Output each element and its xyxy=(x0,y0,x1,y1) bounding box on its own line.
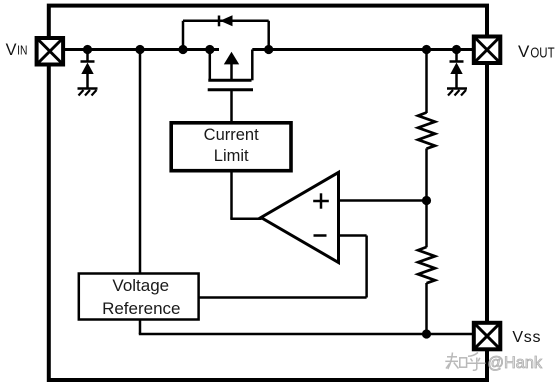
svg-text:V: V xyxy=(6,41,17,59)
svg-text:Voltage: Voltage xyxy=(112,276,169,295)
svg-text:Vss: Vss xyxy=(512,329,541,346)
svg-text:OUT: OUT xyxy=(530,45,554,61)
svg-text:IN: IN xyxy=(17,43,27,58)
svg-text:Reference: Reference xyxy=(102,299,180,318)
svg-text:@Hank: @Hank xyxy=(488,354,543,372)
svg-text:Current: Current xyxy=(204,126,259,144)
svg-text:Limit: Limit xyxy=(214,147,249,165)
svg-text:V: V xyxy=(518,42,530,61)
